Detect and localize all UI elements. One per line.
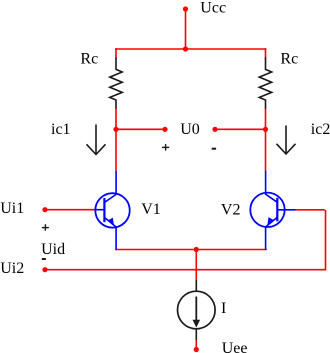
svg-text:I: I	[221, 300, 226, 317]
svg-text:Ui2: Ui2	[0, 260, 24, 277]
svg-text:Ucc: Ucc	[200, 0, 226, 17]
svg-text:Rc: Rc	[280, 50, 298, 67]
svg-text:V1: V1	[141, 201, 161, 218]
svg-text:Rc: Rc	[80, 50, 98, 67]
svg-text:ic1: ic1	[51, 121, 71, 138]
svg-text:Uee: Uee	[222, 340, 248, 353]
svg-text:ic2: ic2	[311, 121, 330, 138]
svg-text:Ui1: Ui1	[0, 200, 24, 217]
svg-text:V2: V2	[221, 201, 241, 218]
svg-text:Uid: Uid	[41, 241, 65, 258]
svg-text:U0: U0	[180, 121, 200, 138]
